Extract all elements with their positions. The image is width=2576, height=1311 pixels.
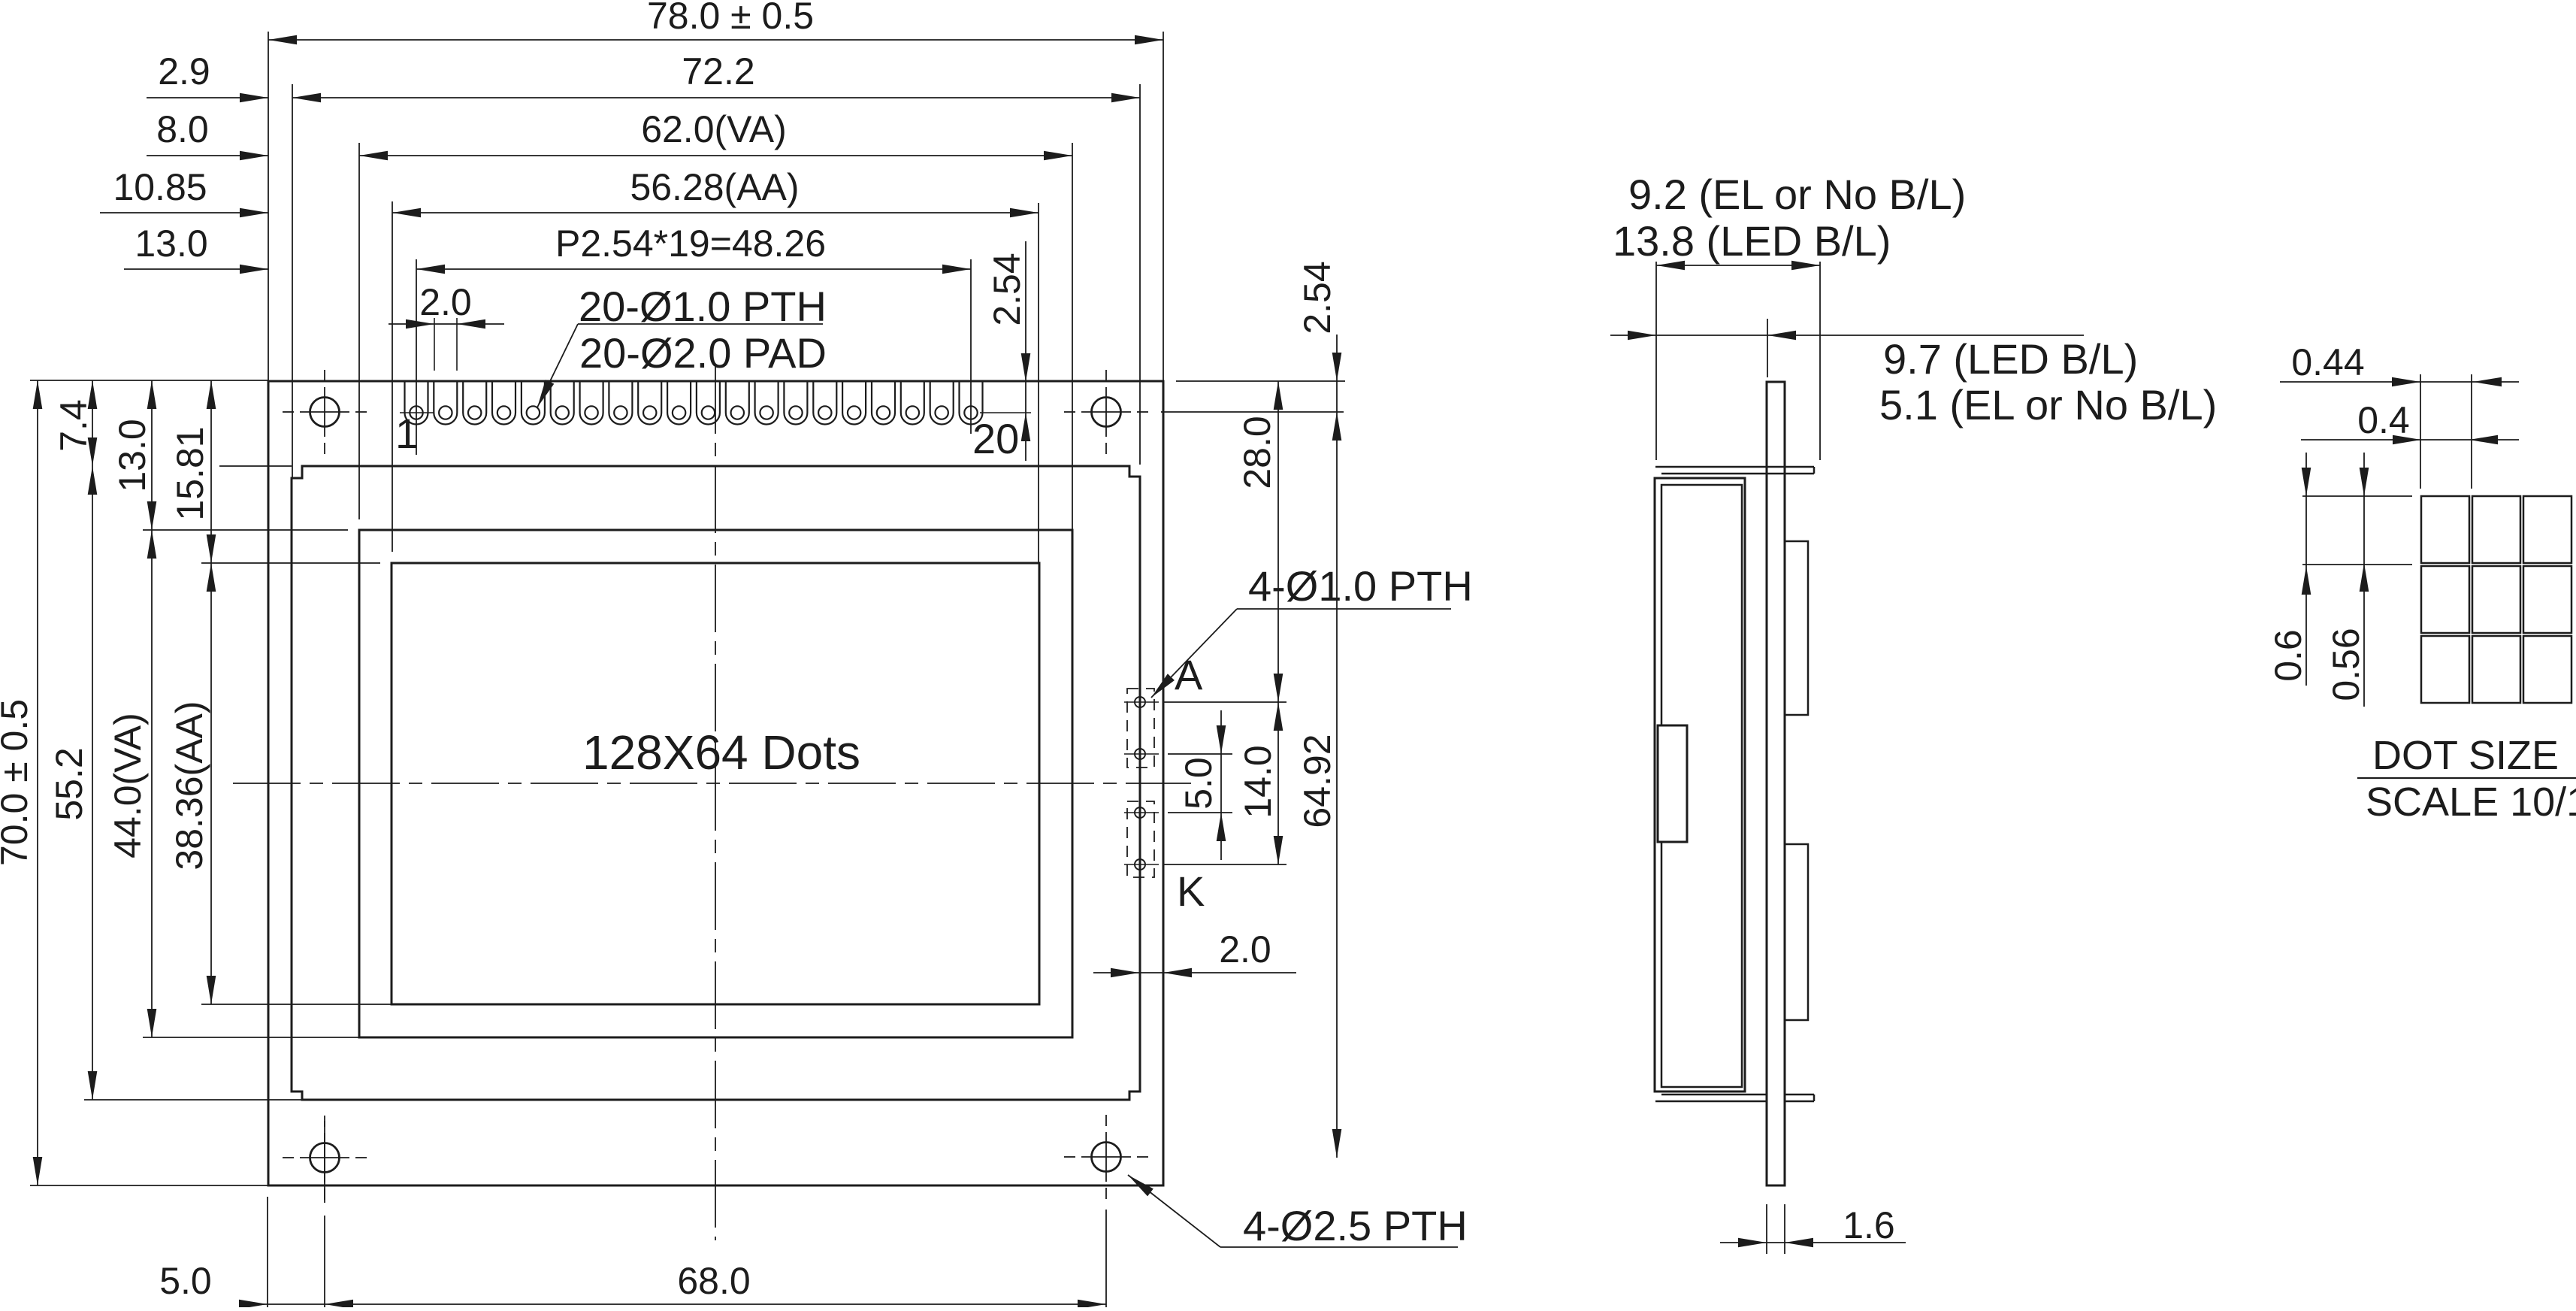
svg-text:0.44: 0.44 [2291,341,2364,383]
svg-text:9.2 (EL or No B/L): 9.2 (EL or No B/L) [1628,171,1966,218]
svg-text:13.0: 13.0 [135,223,207,265]
svg-text:10.85: 10.85 [113,166,207,208]
svg-text:13.0: 13.0 [111,419,153,492]
svg-text:DOT SIZE: DOT SIZE [2372,733,2559,778]
svg-text:2.0: 2.0 [1219,928,1271,970]
svg-text:20-Ø1.0 PTH: 20-Ø1.0 PTH [579,283,827,330]
svg-text:13.8 (LED B/L): 13.8 (LED B/L) [1613,217,1891,265]
svg-text:20-Ø2.0 PAD: 20-Ø2.0 PAD [579,329,827,377]
svg-text:70.0 ± 0.5: 70.0 ± 0.5 [0,699,35,866]
svg-text:44.0(VA): 44.0(VA) [107,713,149,858]
svg-text:0.6: 0.6 [2267,629,2309,682]
svg-text:2.0: 2.0 [419,281,472,323]
svg-text:56.28(AA): 56.28(AA) [630,166,799,208]
svg-text:20: 20 [972,415,1019,462]
svg-text:62.0(VA): 62.0(VA) [641,108,787,150]
svg-text:128X64 Dots: 128X64 Dots [582,725,860,780]
svg-text:28.0: 28.0 [1236,416,1278,489]
svg-text:2.54: 2.54 [1296,261,1338,334]
svg-text:1.6: 1.6 [1843,1204,1895,1246]
svg-text:SCALE 10/1: SCALE 10/1 [2366,780,2576,825]
svg-text:5.1 (EL or No B/L): 5.1 (EL or No B/L) [1879,381,2217,428]
svg-text:8.0: 8.0 [156,108,209,150]
svg-text:4-Ø1.0 PTH: 4-Ø1.0 PTH [1248,562,1473,610]
svg-text:5.0: 5.0 [1178,757,1220,810]
svg-text:15.81: 15.81 [169,426,211,520]
svg-text:72.2: 72.2 [682,50,754,92]
svg-text:64.92: 64.92 [1296,734,1338,828]
svg-text:2.9: 2.9 [158,50,210,92]
svg-text:68.0: 68.0 [677,1260,750,1302]
svg-text:7.4: 7.4 [53,399,95,452]
svg-text:55.2: 55.2 [48,747,90,820]
svg-text:38.36(AA): 38.36(AA) [168,701,210,870]
svg-text:1: 1 [395,410,419,457]
svg-text:5.0: 5.0 [159,1260,212,1302]
svg-text:0.56: 0.56 [2325,628,2367,701]
svg-text:78.0 ± 0.5: 78.0 ± 0.5 [647,0,814,37]
svg-text:K: K [1177,867,1205,915]
svg-text:14.0: 14.0 [1237,745,1279,818]
svg-text:0.4: 0.4 [2357,399,2410,441]
svg-text:9.7 (LED B/L): 9.7 (LED B/L) [1883,335,2138,383]
svg-text:P2.54*19=48.26: P2.54*19=48.26 [555,223,826,265]
svg-text:2.54: 2.54 [986,253,1028,325]
svg-text:4-Ø2.5 PTH: 4-Ø2.5 PTH [1243,1202,1468,1249]
